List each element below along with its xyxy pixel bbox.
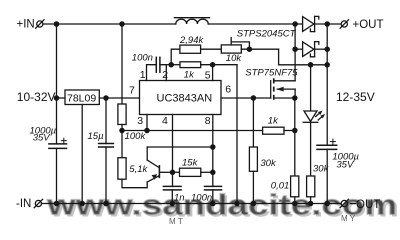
node junction pin3: [145, 128, 149, 132]
wire 15k right stub: [201, 171, 213, 173]
node junction output rail mid: [325, 63, 329, 67]
svg-text:М Т: М Т: [169, 217, 183, 226]
wire 5k1 column: [121, 131, 123, 158]
resistor R2 1k feedback: [180, 62, 201, 68]
wire current sense net: [122, 130, 263, 132]
capacitor C6 1000u 35V output: [317, 139, 337, 203]
node junction 15u branch: [104, 96, 108, 100]
svg-text:5: 5: [205, 70, 211, 82]
svg-text:35V: 35V: [33, 132, 52, 143]
node junction rail x237: [235, 201, 239, 205]
capacitor C4 1n timing: [163, 186, 181, 203]
svg-text:1: 1: [140, 69, 146, 81]
node junction feedback divider: [169, 63, 173, 67]
wire D2 anode stub: [295, 48, 303, 50]
svg-text:100k: 100k: [125, 131, 147, 142]
node junction mosfet source: [293, 96, 297, 100]
wire pin2 riser: [160, 65, 166, 81]
wire bottom rail: [42, 203, 341, 205]
svg-text:1k: 1k: [184, 70, 195, 81]
svg-text:15µ: 15µ: [88, 131, 105, 142]
svg-text:35V: 35V: [336, 159, 355, 170]
wire 78L09 ground pin: [81, 105, 83, 204]
wire gate 30k riser: [252, 98, 254, 147]
node junction rail x172: [170, 201, 174, 205]
svg-text:M Y: M Y: [341, 214, 356, 223]
potentiometer P1 10k: [221, 38, 249, 54]
resistor R7 1k sense: [263, 127, 284, 134]
svg-text:3: 3: [137, 115, 143, 127]
wire pin1 riser: [147, 65, 157, 81]
terminal +OUT: [340, 20, 348, 28]
wire feedback node horizontal: [166, 64, 180, 66]
node junction rail x56: [54, 201, 58, 205]
wire 15u column: [105, 98, 107, 204]
node junction rail x212: [211, 201, 215, 205]
svg-text:2,94k: 2,94k: [179, 35, 204, 46]
svg-text:-IN: -IN: [16, 198, 31, 210]
node junction +OUT rail top: [325, 22, 329, 26]
svg-text:+OUT: +OUT: [353, 19, 384, 31]
terminal -OUT: [340, 199, 348, 207]
diode D1 STPS2045CT half A: [303, 16, 319, 31]
wire source column: [294, 98, 296, 176]
node junction rail x82: [80, 201, 84, 205]
node junction top rail x122: [120, 22, 124, 26]
svg-text:5,1k: 5,1k: [129, 164, 148, 175]
wire 100k to node A: [121, 125, 123, 131]
wire 1000u input cap column: [56, 24, 58, 204]
wire pin3 riser: [146, 115, 148, 131]
wire top rail right: [208, 23, 302, 25]
wire riser to 2.94k: [171, 49, 180, 64]
wire 15k left stub: [173, 171, 180, 173]
LED D3: [303, 111, 325, 123]
wire feedback to output rail: [279, 49, 328, 65]
capacitor C1 1000u 35V input: [49, 138, 67, 148]
wire 78L09 output to pin7: [99, 97, 139, 99]
svg-text:10-32V: 10-32V: [17, 90, 56, 104]
node junction top rail x56: [54, 22, 58, 26]
wire emitter loop: [122, 179, 147, 188]
wire shunt to rail: [294, 197, 296, 204]
wire switch node vertical: [294, 24, 296, 81]
svg-text:STP75NF75: STP75NF75: [245, 68, 298, 79]
node junction rail x253: [251, 201, 255, 205]
transistor T1 STP75NF75 mosfet: [271, 78, 295, 100]
wire pin5 riser: [212, 65, 214, 81]
diode D2 STPS2045CT half B: [303, 42, 319, 57]
svg-text:8: 8: [205, 115, 211, 127]
svg-text:2: 2: [162, 69, 168, 81]
node junction 78L09 input: [54, 96, 58, 100]
svg-text:4: 4: [162, 115, 168, 127]
IC U1 UC3843AN: [140, 81, 222, 115]
node junction rail x294: [293, 201, 297, 205]
svg-text:7: 7: [129, 85, 135, 97]
svg-text:30k: 30k: [260, 158, 277, 169]
node junction pin4 timing: [170, 170, 174, 174]
node junction rail x327: [325, 201, 329, 205]
watermark www.sandacite.com: [46, 190, 399, 224]
label -OUT: [350, 199, 380, 211]
svg-text:12-35V: 12-35V: [336, 90, 375, 104]
wire pin8 riser: [212, 115, 214, 187]
resistor R6 30k gate: [249, 147, 257, 171]
wire 78L09 input stub: [57, 97, 66, 99]
resistor R4 5,1k: [118, 158, 126, 180]
terminal +IN: [36, 20, 44, 28]
wire pot to feedback corner: [241, 48, 278, 50]
svg-text:UC3843AN: UC3843AN: [157, 93, 213, 105]
svg-text:1k: 1k: [268, 116, 279, 127]
node junction node A: [120, 128, 124, 132]
svg-text:1n: 1n: [174, 193, 185, 204]
wire 1k sense right stub: [284, 130, 295, 132]
capacitor C3 100n comp: [156, 57, 160, 72]
svg-text:6: 6: [225, 84, 231, 96]
svg-text:STPS2045CT: STPS2045CT: [237, 29, 297, 40]
node junction D2 anode: [293, 47, 297, 51]
node junction vref collector: [211, 145, 215, 149]
svg-text:78L09: 78L09: [67, 93, 96, 105]
resistor R9 30k LED: [307, 176, 315, 197]
node junction LED branch top: [309, 63, 313, 67]
wire 2.94k to pot: [201, 48, 222, 50]
svg-text:+IN: +IN: [17, 19, 35, 31]
wire 100k column from rail: [121, 24, 123, 104]
node junction rail x106: [104, 201, 108, 205]
regulator U2 78L09: [65, 90, 99, 105]
watermark yellow marks: [169, 214, 356, 226]
wire top rail left: [43, 23, 176, 25]
node junction 15k vref: [211, 170, 215, 174]
resistor R3 100k: [118, 104, 126, 125]
resistor R5 15k: [180, 168, 201, 176]
resistor R1 2.94k: [180, 45, 201, 53]
wire 1k to pin5 node: [201, 64, 237, 66]
wire +OUT rail vertical upper: [326, 24, 328, 145]
wire 30k LED to rail: [310, 197, 312, 204]
wire D1 cathode to +OUT: [315, 23, 341, 25]
wire pin6 gate drive: [221, 97, 271, 99]
wire LED to 30k: [310, 122, 312, 176]
svg-text:100n: 100n: [132, 52, 153, 63]
label C1 value 1000u 35V: [30, 126, 57, 144]
wire pin4 riser: [172, 115, 174, 187]
terminal -IN: [34, 199, 42, 207]
wire collector to vref: [147, 146, 213, 148]
wire 30k gate to rail: [252, 171, 254, 203]
node junction pot wiper: [247, 47, 251, 51]
node junction switch node top: [293, 22, 297, 26]
svg-text:10k: 10k: [226, 53, 243, 64]
wire collector riser: [146, 147, 148, 160]
label C6 value 1000u 35V: [332, 151, 359, 170]
capacitor C2 15u: [99, 144, 114, 148]
node junction D2 cathode rail: [325, 47, 329, 51]
transistor Q1 PNP: [147, 160, 172, 182]
wire LED column upper: [310, 65, 312, 111]
svg-text:OUT: OUT: [356, 199, 380, 211]
node junction gate resistor: [251, 96, 255, 100]
node junction pin5 gnd: [211, 63, 215, 67]
node junction sense node: [293, 128, 297, 132]
node junction rail x310: [309, 201, 313, 205]
wire gnd riser: [236, 65, 238, 204]
capacitor C5 100n vref: [205, 186, 222, 203]
svg-text:15k: 15k: [182, 157, 199, 168]
resistor R8 0,01 shunt: [291, 176, 299, 197]
svg-text:0,01: 0,01: [271, 181, 290, 192]
inductor L1: [174, 18, 209, 24]
svg-text:100n: 100n: [191, 193, 212, 204]
wire D2 cathode stub: [315, 48, 328, 50]
